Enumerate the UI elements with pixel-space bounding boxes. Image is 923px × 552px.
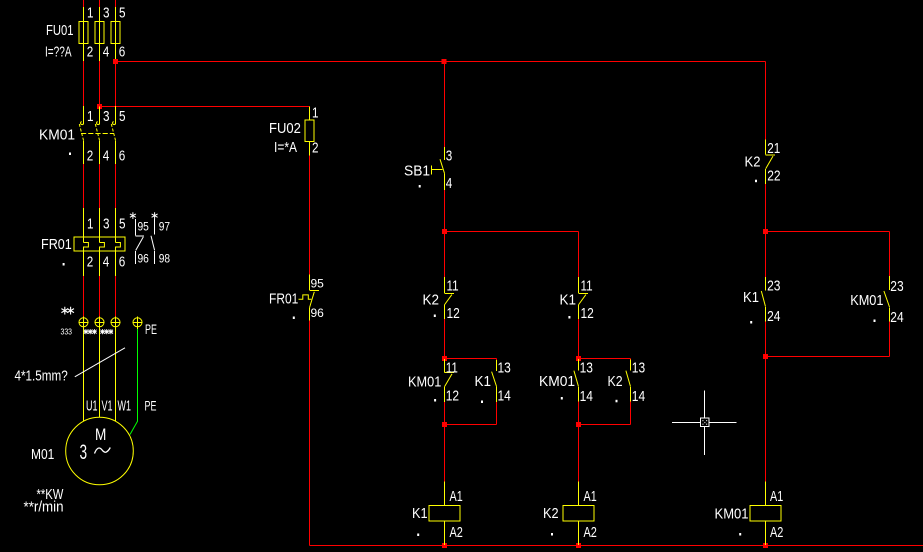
svg-text:KM01: KM01 bbox=[850, 291, 884, 308]
svg-text:K1: K1 bbox=[743, 288, 759, 305]
svg-text:FR01: FR01 bbox=[41, 235, 72, 252]
svg-text:2: 2 bbox=[87, 253, 94, 270]
svg-text:12: 12 bbox=[447, 305, 460, 322]
svg-text:**r/min: **r/min bbox=[24, 499, 64, 516]
svg-text:13: 13 bbox=[580, 359, 593, 376]
svg-text:95: 95 bbox=[311, 276, 325, 290]
svg-text:6: 6 bbox=[119, 43, 126, 60]
svg-text:24: 24 bbox=[890, 309, 904, 326]
svg-text:KM01: KM01 bbox=[39, 127, 75, 144]
svg-text:A1: A1 bbox=[450, 487, 463, 504]
svg-text:24: 24 bbox=[767, 308, 781, 325]
svg-text:1: 1 bbox=[87, 4, 94, 21]
svg-text:K2: K2 bbox=[543, 504, 559, 521]
svg-text:A2: A2 bbox=[584, 523, 597, 540]
svg-text:KM01: KM01 bbox=[715, 505, 749, 522]
svg-text:4*1.5mm?: 4*1.5mm? bbox=[15, 367, 68, 384]
svg-text:W1: W1 bbox=[118, 397, 132, 414]
svg-text:14: 14 bbox=[498, 387, 512, 404]
svg-text:6: 6 bbox=[119, 147, 126, 164]
svg-text:1: 1 bbox=[87, 108, 94, 125]
svg-text:98: 98 bbox=[159, 253, 170, 266]
svg-text:1: 1 bbox=[312, 104, 319, 121]
svg-text:21: 21 bbox=[767, 140, 780, 157]
svg-text:KM01: KM01 bbox=[539, 374, 575, 391]
svg-text:U1: U1 bbox=[86, 397, 98, 414]
svg-text:PE: PE bbox=[145, 399, 157, 414]
svg-text:I=??A: I=??A bbox=[45, 43, 72, 61]
svg-text:FU01: FU01 bbox=[46, 21, 73, 38]
svg-text:K1: K1 bbox=[412, 504, 428, 521]
svg-text:1: 1 bbox=[87, 215, 94, 232]
svg-text:5: 5 bbox=[119, 4, 126, 21]
svg-text:333: 333 bbox=[61, 327, 72, 337]
svg-text:M: M bbox=[95, 426, 106, 445]
svg-text:13: 13 bbox=[498, 359, 511, 376]
svg-text:PE: PE bbox=[145, 322, 157, 337]
svg-text:4: 4 bbox=[103, 43, 110, 60]
svg-text:I=*A: I=*A bbox=[274, 139, 298, 156]
svg-text:3: 3 bbox=[103, 215, 110, 232]
svg-text:6: 6 bbox=[119, 253, 126, 270]
svg-text:K2: K2 bbox=[423, 292, 440, 309]
svg-text:5: 5 bbox=[119, 215, 126, 232]
svg-text:3: 3 bbox=[446, 147, 453, 164]
svg-text:11: 11 bbox=[581, 277, 593, 294]
svg-text:11: 11 bbox=[447, 277, 459, 294]
svg-text:KM01: KM01 bbox=[408, 372, 442, 389]
svg-text:2: 2 bbox=[312, 139, 319, 156]
svg-text:96: 96 bbox=[311, 306, 325, 320]
svg-text:V1: V1 bbox=[102, 397, 113, 414]
svg-text:A2: A2 bbox=[770, 523, 783, 540]
svg-text:97: 97 bbox=[159, 221, 170, 234]
svg-text:96: 96 bbox=[138, 253, 149, 266]
svg-text:FR01: FR01 bbox=[269, 290, 298, 307]
svg-text:14: 14 bbox=[632, 388, 646, 405]
svg-text:14: 14 bbox=[580, 388, 594, 405]
svg-text:K1: K1 bbox=[560, 292, 577, 309]
svg-text:22: 22 bbox=[767, 167, 780, 184]
svg-text:4: 4 bbox=[103, 253, 110, 270]
svg-text:M01: M01 bbox=[31, 446, 54, 463]
svg-text:4: 4 bbox=[103, 147, 110, 164]
svg-text:A1: A1 bbox=[770, 487, 783, 504]
svg-text:SB1: SB1 bbox=[404, 163, 430, 180]
svg-text:12: 12 bbox=[446, 387, 459, 404]
svg-text:3: 3 bbox=[80, 440, 88, 464]
svg-text:11: 11 bbox=[446, 359, 458, 376]
svg-text:12: 12 bbox=[581, 305, 594, 322]
svg-text:23: 23 bbox=[890, 278, 903, 295]
svg-text:K1: K1 bbox=[475, 373, 492, 390]
svg-text:13: 13 bbox=[632, 359, 645, 376]
svg-text:2: 2 bbox=[87, 43, 94, 60]
svg-text:4: 4 bbox=[446, 175, 453, 192]
svg-text:3: 3 bbox=[103, 4, 110, 21]
svg-text:FU02: FU02 bbox=[269, 119, 301, 136]
svg-text:3: 3 bbox=[103, 108, 110, 125]
svg-text:23: 23 bbox=[767, 277, 780, 294]
svg-text:A2: A2 bbox=[450, 523, 463, 540]
svg-text:5: 5 bbox=[119, 108, 126, 125]
svg-text:95: 95 bbox=[138, 221, 149, 234]
svg-text:A1: A1 bbox=[584, 487, 597, 504]
svg-text:2: 2 bbox=[87, 147, 94, 164]
svg-text:K2: K2 bbox=[745, 153, 761, 170]
svg-text:K2: K2 bbox=[608, 373, 623, 389]
